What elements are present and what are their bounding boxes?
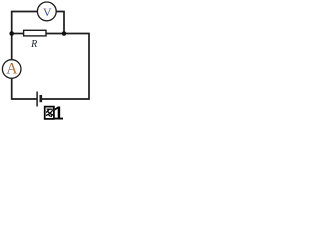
svg-text:R: R: [30, 39, 37, 50]
svg-text:A: A: [6, 61, 18, 78]
svg-text:V: V: [43, 5, 52, 19]
svg-text:1: 1: [54, 103, 64, 122]
